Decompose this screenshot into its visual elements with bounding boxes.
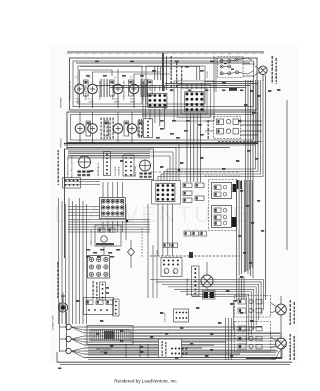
svg-text:SW R: SW R bbox=[130, 102, 136, 104]
svg-text:SURFACE: SURFACE bbox=[60, 138, 63, 148]
svg-text:L1: L1 bbox=[130, 77, 132, 79]
svg-text:SW R: SW R bbox=[89, 102, 95, 104]
svg-text:P-5 OVEN: P-5 OVEN bbox=[115, 166, 117, 176]
svg-text:CONTROL: CONTROL bbox=[119, 165, 121, 176]
svg-text:RECEPTACLE: RECEPTACLE bbox=[97, 162, 100, 176]
svg-text:POWER CORD: POWER CORD bbox=[53, 315, 55, 330]
svg-text:CLOCK: CLOCK bbox=[207, 70, 209, 78]
svg-text:ELECTRIC CONTROL: ELECTRIC CONTROL bbox=[72, 155, 74, 178]
svg-text:Rendered by LeadVenture, Inc.: Rendered by LeadVenture, Inc. bbox=[114, 379, 178, 384]
svg-text:SURFACE UNIT SW: SURFACE UNIT SW bbox=[112, 81, 115, 100]
svg-text:OVEN LIGHT SW: OVEN LIGHT SW bbox=[91, 230, 93, 246]
svg-text:L1: L1 bbox=[114, 77, 116, 79]
svg-text:TERMINAL: TERMINAL bbox=[60, 97, 63, 108]
svg-text:SURFACE UNIT SW: SURFACE UNIT SW bbox=[99, 81, 102, 100]
svg-text:SELECTOR: SELECTOR bbox=[135, 166, 137, 177]
svg-text:SW R: SW R bbox=[76, 102, 82, 104]
svg-text:M: M bbox=[164, 272, 166, 275]
svg-text:SURFACE UNIT SW: SURFACE UNIT SW bbox=[123, 81, 126, 100]
svg-text:SURFACE UNIT SW: SURFACE UNIT SW bbox=[85, 81, 88, 100]
svg-text:SW R: SW R bbox=[114, 102, 120, 104]
svg-text:L1: L1 bbox=[76, 77, 78, 79]
svg-text:M: M bbox=[173, 272, 175, 275]
svg-text:SURFACE UNIT SW: SURFACE UNIT SW bbox=[69, 81, 72, 100]
svg-text:P-9 LOCK: P-9 LOCK bbox=[165, 312, 167, 322]
svg-text:THERMOSTAT OVEN: THERMOSTAT OVEN bbox=[67, 156, 70, 178]
svg-text:L1: L1 bbox=[89, 77, 91, 79]
